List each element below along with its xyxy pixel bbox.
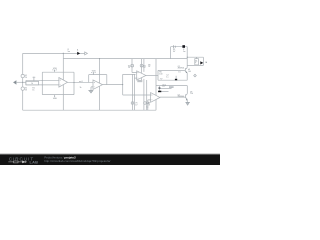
- wire mid column A: [132, 59, 137, 73]
- input flag arrow: [13, 81, 16, 85]
- current probe arrow: [200, 61, 203, 64]
- svg-text:2N3904: 2N3904: [178, 96, 185, 98]
- svg-text:1u: 1u: [166, 76, 168, 78]
- wire Q2 emitter column: [186, 99, 188, 102]
- wire op1 left edge: [41, 72, 43, 94]
- wire probe row: [156, 85, 187, 87]
- wire load right edge: [202, 57, 204, 65]
- wire Q2 collector column: [186, 86, 188, 94]
- svg-text:1u: 1u: [162, 86, 164, 88]
- svg-text:1u: 1u: [146, 107, 148, 109]
- dark element top: [182, 45, 185, 48]
- voltage source V2: [21, 87, 24, 90]
- wire blob out: [161, 90, 168, 92]
- battery V3: [174, 45, 176, 48]
- op3 plus mark: [137, 72, 138, 73]
- op1 plus mark: [60, 79, 61, 80]
- op2 minus mark: [94, 86, 95, 88]
- wire op1 bottom rail: [42, 94, 74, 96]
- battery loop left: [170, 47, 172, 59]
- wire Q1 collector column: [186, 47, 188, 68]
- op2 plus mark: [94, 82, 95, 83]
- wire op2 lower input: [91, 87, 93, 91]
- load box R: [195, 59, 199, 65]
- op-amp U4: [151, 93, 160, 103]
- load stubs: [196, 57, 198, 65]
- wire out2 down branch: [123, 85, 151, 95]
- svg-text:100: 100: [188, 71, 191, 73]
- op1 minus mark: [60, 84, 61, 86]
- battery loop top: [171, 46, 188, 48]
- source flag D: [144, 102, 147, 105]
- wire op4 output: [160, 96, 186, 98]
- svg-text:1k: 1k: [80, 87, 82, 89]
- wire input split vertical: [25, 80, 27, 84]
- svg-text:1k: 1k: [148, 66, 150, 68]
- ground op2: [88, 90, 93, 92]
- wire right pair column D: [143, 59, 145, 111]
- wire op3 supply column: [140, 59, 142, 81]
- wire op4 supply column: [155, 59, 157, 111]
- node rect-left-upper: [42, 80, 43, 81]
- svg-text:LAB: LAB: [30, 160, 39, 165]
- svg-text:100: 100: [190, 93, 193, 95]
- svg-text:1k: 1k: [32, 89, 34, 91]
- wire W1 top rail: [23, 52, 85, 54]
- node out1 cross: [74, 82, 75, 83]
- svg-text:1k: 1k: [31, 83, 33, 85]
- wire op4 lower input: [148, 100, 151, 102]
- svg-text:out1: out1: [79, 80, 83, 83]
- wire op4 cap to bus: [147, 103, 149, 110]
- wire out2: [103, 84, 123, 86]
- op-amp U3: [137, 71, 146, 80]
- wire load top: [187, 56, 203, 58]
- logo LAB line: [8, 161, 27, 163]
- wire op3 output: [146, 74, 158, 76]
- dark element mid bar: [175, 79, 177, 81]
- op4 plus mark: [151, 94, 152, 95]
- svg-text:D1: D1: [178, 71, 180, 73]
- wire W2 supply rail: [63, 58, 187, 60]
- source flag A: [131, 64, 134, 67]
- svg-text:2N3904: 2N3904: [178, 68, 185, 70]
- op-amp U2: [93, 80, 103, 90]
- svg-text:R7: R7: [160, 78, 162, 80]
- wire op1 supply column: [62, 59, 64, 111]
- capacitor mid plates: [137, 80, 142, 81]
- wire op3 out column: [157, 70, 159, 80]
- wire cap2 row: [159, 87, 171, 89]
- transistor Q2: [186, 94, 188, 100]
- wire emitter row: [158, 79, 187, 81]
- node rect-left-lower: [42, 84, 43, 85]
- probe blob black: [158, 91, 161, 93]
- wire lower input: [26, 84, 59, 86]
- Q1 emitter arrow: [186, 72, 188, 73]
- capacitor op4 plates: [146, 102, 149, 103]
- svg-text:8: 8: [195, 62, 196, 64]
- wire Q1 emitter column: [186, 73, 188, 80]
- ground bus: [23, 109, 156, 111]
- svg-text:VEE: VEE: [53, 98, 58, 100]
- resistor R1 box: [26, 81, 39, 85]
- wire op2 feedback: [89, 75, 107, 85]
- wire out2 up branch: [123, 74, 136, 84]
- wire op3 lower input: [134, 77, 136, 79]
- svg-text:http://circuitlab.com/c/ew84dm: http://circuitlab.com/c/ew84dm2dqa7b9/pr…: [44, 159, 110, 163]
- op-amp U1: [59, 78, 68, 88]
- label glyph above R1: [33, 77, 36, 82]
- logo CIRCUIT: [8, 155, 110, 164]
- node load top: [187, 57, 188, 58]
- probe blob gray: [158, 87, 160, 89]
- svg-text:100: 100: [159, 73, 162, 75]
- wire pair column B: [132, 74, 134, 110]
- wire upper input: [26, 79, 59, 81]
- node W2 op2col: [99, 58, 100, 59]
- W1 end flag: [85, 52, 88, 55]
- svg-text:VDD: VDD: [53, 68, 58, 70]
- wire pair column C: [133, 74, 135, 110]
- node out2 branch: [122, 84, 123, 85]
- vdd flag op2: [91, 72, 96, 74]
- capacitor C2: [169, 86, 174, 89]
- source flag B: [140, 64, 143, 67]
- dark element mid: [175, 76, 177, 79]
- voltage source V1: [21, 74, 24, 77]
- node input junction: [22, 82, 23, 83]
- wire W1 drop to W2: [62, 53, 64, 58]
- diamond flag: [194, 74, 197, 77]
- wire left source column: [22, 53, 24, 110]
- ground Q2: [185, 101, 190, 103]
- op3 minus mark: [137, 77, 138, 79]
- vee flag op1: [54, 95, 56, 96]
- source flag C: [131, 102, 134, 105]
- black arrow W1: [77, 52, 80, 55]
- wire right pair column E: [146, 80, 148, 110]
- node junction W1/col: [63, 53, 64, 54]
- wire input stub: [17, 81, 26, 83]
- wire op2 supply column: [99, 59, 101, 111]
- wire load bottom: [187, 64, 203, 66]
- vdd flag op1: [52, 70, 57, 72]
- wire out1: [68, 81, 94, 83]
- op4 minus mark: [151, 99, 152, 101]
- transistor Q1: [185, 68, 187, 73]
- wire op1 top rail: [42, 71, 74, 73]
- svg-text:VDD: VDD: [92, 70, 97, 72]
- wire op1 right edge: [73, 72, 75, 94]
- svg-text:5m: 5m: [68, 51, 71, 53]
- wire Q1 base: [158, 69, 185, 71]
- Q2 emitter arrow: [186, 99, 188, 101]
- wire probe stub: [158, 86, 160, 91]
